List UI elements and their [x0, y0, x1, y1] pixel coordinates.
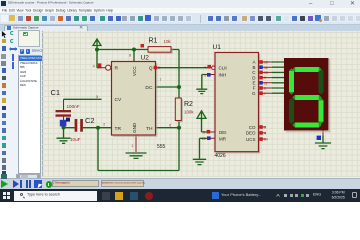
- svg-text:MR: MR: [219, 137, 227, 142]
- svg-text:10: 10: [264, 61, 268, 65]
- svg-text:2: 2: [204, 73, 206, 77]
- svg-text:4026: 4026: [215, 153, 226, 159]
- svg-text:GND: GND: [132, 122, 137, 133]
- svg-text:DC: DC: [145, 85, 153, 91]
- svg-text:10uF: 10uF: [70, 137, 81, 142]
- svg-text:5: 5: [96, 95, 98, 99]
- svg-text:11: 11: [264, 81, 268, 85]
- svg-text:3: 3: [203, 130, 205, 134]
- svg-text:C1: C1: [51, 88, 61, 97]
- svg-text:12: 12: [264, 66, 268, 70]
- svg-text:DEO: DEO: [246, 131, 256, 136]
- svg-text:1: 1: [204, 66, 206, 70]
- svg-text:3: 3: [158, 66, 160, 70]
- svg-text:U2: U2: [141, 55, 150, 62]
- svg-text:8: 8: [129, 53, 131, 57]
- svg-text:7: 7: [160, 78, 162, 82]
- svg-text:R2: R2: [184, 101, 193, 108]
- svg-text:C2: C2: [85, 116, 95, 125]
- svg-text:TH: TH: [146, 126, 153, 132]
- svg-text:4: 4: [264, 132, 266, 136]
- svg-text:CLK: CLK: [219, 66, 228, 71]
- svg-text:7: 7: [264, 92, 266, 96]
- svg-text:R: R: [115, 66, 119, 72]
- svg-text:INH: INH: [219, 73, 227, 78]
- svg-text:G: G: [252, 91, 256, 96]
- svg-text:TR: TR: [115, 126, 122, 132]
- svg-text:10k: 10k: [164, 39, 172, 44]
- svg-text:1: 1: [132, 144, 134, 148]
- svg-text:4: 4: [93, 64, 95, 68]
- svg-text:Q: Q: [149, 66, 153, 72]
- svg-text:100k: 100k: [184, 110, 194, 115]
- svg-text:2: 2: [103, 123, 105, 127]
- svg-text:UCS: UCS: [246, 137, 256, 142]
- svg-text:CO: CO: [249, 125, 256, 130]
- svg-text:6: 6: [264, 87, 266, 91]
- svg-text:U1: U1: [213, 44, 222, 51]
- svg-text:R1: R1: [149, 38, 158, 45]
- svg-text:CV: CV: [115, 97, 123, 103]
- svg-text:13: 13: [264, 71, 268, 75]
- svg-text:555: 555: [157, 144, 166, 150]
- svg-text:DEI: DEI: [219, 130, 227, 135]
- svg-text:9: 9: [264, 76, 266, 80]
- svg-text:VCC: VCC: [132, 66, 137, 76]
- svg-text:15: 15: [202, 137, 206, 141]
- svg-text:6: 6: [169, 124, 171, 128]
- svg-text:5: 5: [264, 126, 266, 130]
- svg-text:100nF: 100nF: [67, 104, 80, 109]
- svg-text:14: 14: [264, 138, 268, 142]
